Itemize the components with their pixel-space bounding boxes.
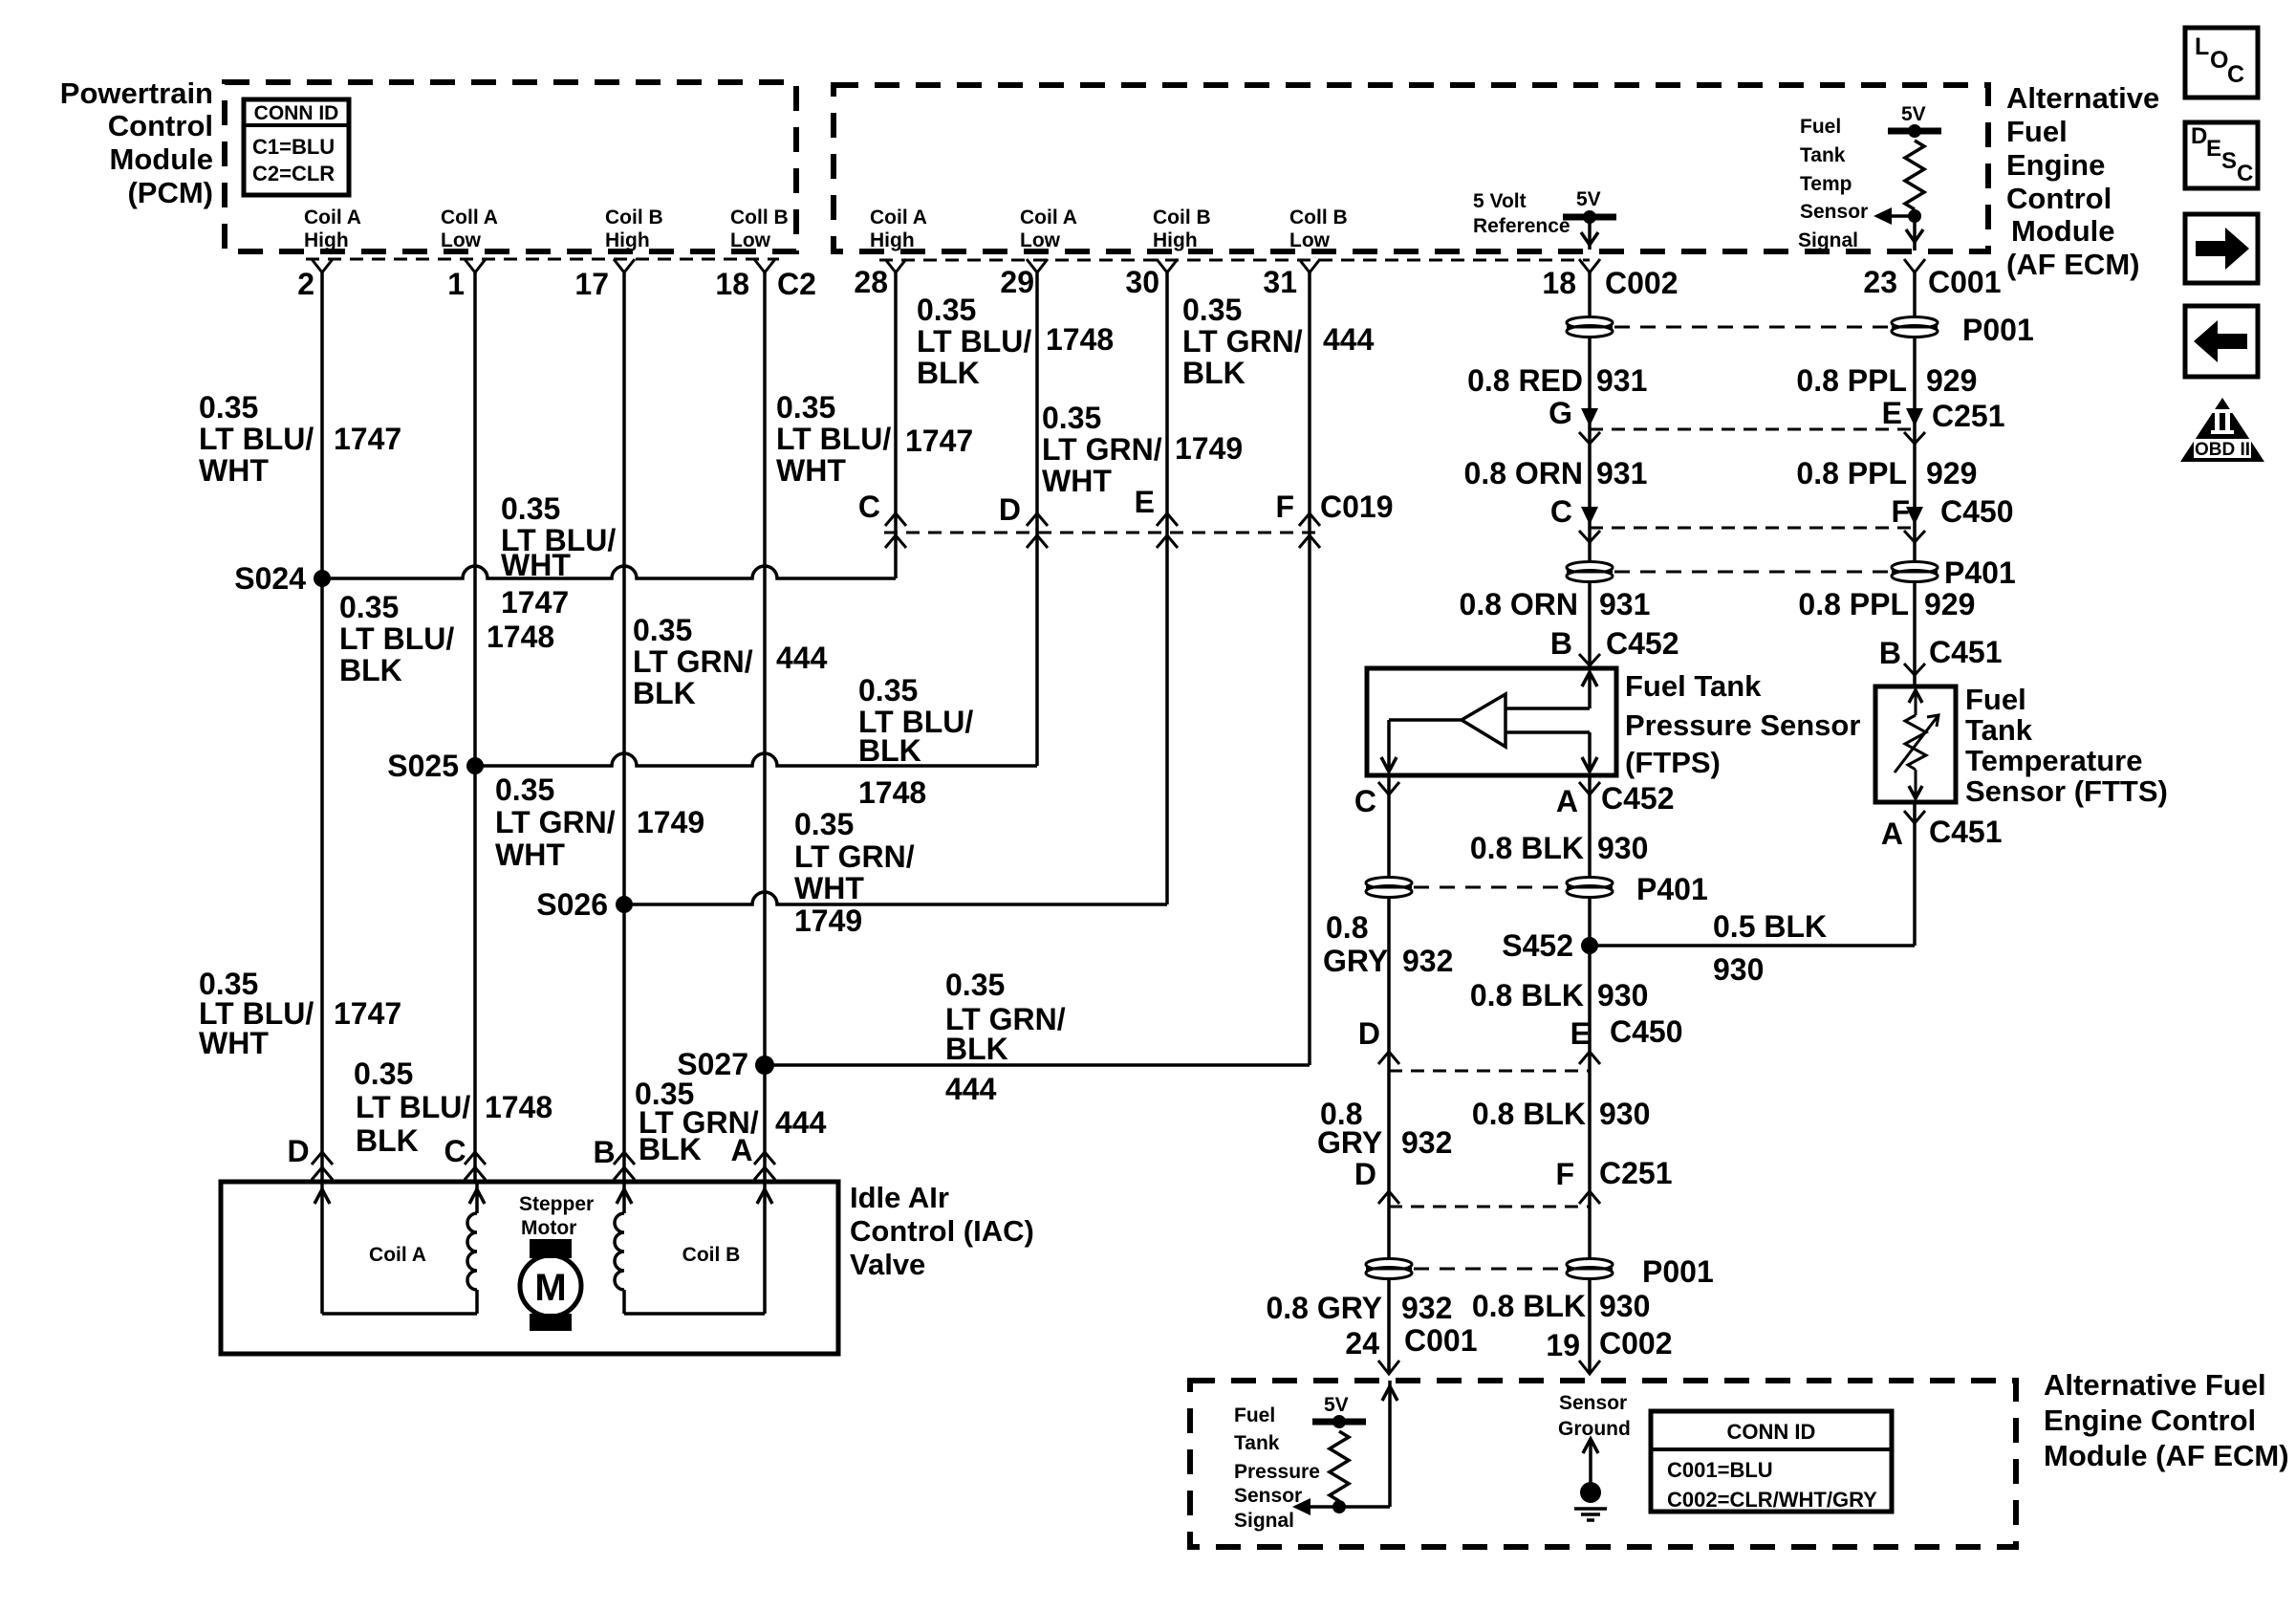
wire: PCM pin 1 Coil A Low (1748) down to IAC pin C: [473, 271, 477, 1182]
svg-text:E: E: [1882, 396, 1902, 430]
component box: Fuel Tank Temperature Sensor (FTTS): [1875, 686, 1956, 802]
svg-text:LT BLU/: LT BLU/: [199, 422, 314, 456]
svg-text:930: 930: [1713, 952, 1764, 987]
svg-text:0.35: 0.35: [199, 390, 258, 425]
svg-text:Coil B: Coil B: [1153, 207, 1211, 229]
wire label: 0.8 GRY 932 (upper): [1323, 910, 1453, 978]
svg-text:932: 932: [1401, 1125, 1452, 1160]
pin terminal: C019 pin C upper chevron: [885, 513, 906, 526]
svg-text:Coil B: Coil B: [682, 1244, 741, 1266]
wire: FTTS pin A down and over to splice S452: [1913, 802, 1917, 946]
svg-text:D: D: [1358, 1016, 1380, 1051]
pin terminal: C019 pin C lower chevron: [885, 535, 906, 548]
wire label: 0.8 PPL 929 (upper): [1796, 363, 1977, 398]
svg-text:444: 444: [1323, 322, 1375, 357]
grommet: P001 left (932 circuit): [1366, 1259, 1412, 1271]
pin label: PCM Coil B High: [605, 207, 663, 251]
svg-text:High: High: [870, 229, 915, 251]
wire label: 0.35 LT BLU/WHT 1747 (pin 2 lower): [199, 967, 401, 1060]
pin terminal: C251 pin G arrow: [1581, 408, 1598, 426]
svg-text:WHT: WHT: [776, 453, 846, 488]
wire: FTPS amplifier output to pin A: [1505, 732, 1597, 772]
svg-text:0.8 BLK: 0.8 BLK: [1470, 978, 1584, 1012]
pin terminal: AF ECM pin 19 C002: [1579, 1361, 1600, 1374]
connector: C450 (C/F) dashed line: [1590, 527, 1915, 530]
pin terminal: AF ECM pin 24 C001: [1378, 1361, 1399, 1374]
pin label: 23 C001: [1863, 265, 2001, 299]
svg-text:0.8 PPL: 0.8 PPL: [1796, 363, 1907, 398]
svg-text:Alternative: Alternative: [2006, 81, 2159, 115]
svg-text:Module (AF ECM): Module (AF ECM): [2044, 1439, 2289, 1472]
wire label: 0.8 BLK 930 (middle): [1472, 1097, 1651, 1131]
svg-text:Sensor: Sensor: [1234, 1485, 1302, 1507]
svg-text:Powertrain: Powertrain: [60, 76, 213, 110]
power symbol: 5V rail for fuel tank temp sensor pull-up: [1888, 103, 1941, 138]
svg-text:High: High: [1153, 229, 1198, 251]
svg-text:18: 18: [715, 267, 749, 301]
pin terminal: AF ECM pin 28: [885, 259, 906, 272]
svg-text:C251: C251: [1599, 1156, 1673, 1190]
wire label: 0.8 GRY 932 (bottom): [1266, 1291, 1452, 1325]
label: Fuel Tank Pressure Sensor Signal: [1234, 1404, 1320, 1532]
grommet: P001 right (930 circuit): [1567, 1259, 1613, 1271]
wire: FTPS pin C column down to pin 24 C001: [1387, 775, 1391, 1374]
svg-text:1747: 1747: [501, 585, 569, 620]
svg-text:F: F: [1275, 490, 1294, 524]
svg-text:S: S: [2221, 148, 2237, 174]
svg-text:LT BLU/: LT BLU/: [776, 422, 891, 456]
svg-text:0.35: 0.35: [776, 390, 835, 425]
motor M1: stepper motor symbol: [519, 1193, 594, 1331]
svg-text:444: 444: [775, 1105, 827, 1140]
svg-text:P001: P001: [1642, 1254, 1714, 1289]
svg-text:0.35: 0.35: [917, 293, 976, 327]
svg-text:WHT: WHT: [501, 548, 571, 582]
svg-text:P401: P401: [1636, 872, 1708, 906]
svg-text:GRY: GRY: [1317, 1125, 1382, 1160]
svg-text:Coil A: Coil A: [369, 1244, 426, 1266]
svg-text:Pressure Sensor: Pressure Sensor: [1625, 708, 1860, 742]
svg-text:929: 929: [1926, 456, 1977, 490]
label: Fuel Tank Temperature Sensor (FTTS): [1965, 683, 2168, 808]
svg-text:C002=CLR/WHT/GRY: C002=CLR/WHT/GRY: [1667, 1488, 1877, 1512]
wire label: 0.35 LT BLU/BLK 1748 (pin 1 lower): [354, 1056, 552, 1158]
svg-text:BLK: BLK: [945, 1032, 1008, 1066]
splice S026: [616, 896, 633, 913]
svg-text:Engine: Engine: [2006, 148, 2105, 182]
wire label: 0.8 BLK 930 (below S452): [1470, 978, 1649, 1012]
svg-text:Signal: Signal: [1798, 229, 1858, 251]
svg-text:L: L: [2195, 33, 2209, 60]
svg-text:C: C: [1354, 784, 1376, 818]
svg-text:F: F: [1891, 494, 1910, 529]
svg-text:C452: C452: [1601, 781, 1675, 816]
svg-text:A: A: [730, 1133, 752, 1167]
wire: FTT signal stub with left arrow: [1874, 207, 1915, 225]
thermistor: FTTS variable resistor symbol: [1895, 690, 1939, 798]
svg-text:29: 29: [1000, 265, 1034, 299]
wire: FTPS amplifier tip to pin C: [1381, 720, 1462, 772]
pin terminal: C019 pin D lower chevron: [1027, 535, 1048, 548]
svg-text:1747: 1747: [334, 422, 401, 456]
grommet: P401 right (930 circuit): [1567, 878, 1613, 889]
wire label: 0.8 BLK 930 (bottom): [1472, 1289, 1651, 1323]
svg-text:Temp: Temp: [1800, 173, 1852, 195]
svg-text:Control: Control: [108, 109, 213, 142]
svg-text:GRY: GRY: [1323, 944, 1388, 978]
pin label: 19 C002: [1546, 1326, 1672, 1362]
svg-text:0.35: 0.35: [354, 1056, 413, 1091]
svg-text:F: F: [1555, 1157, 1574, 1191]
svg-text:C1=BLU: C1=BLU: [252, 135, 335, 159]
grommet P001 dashed link: [1614, 326, 1890, 329]
svg-text:G: G: [1549, 396, 1572, 430]
pin terminal: C019 pin F lower chevron: [1299, 535, 1320, 548]
svg-text:0.8 BLK: 0.8 BLK: [1472, 1097, 1586, 1131]
svg-text:0.8 GRY: 0.8 GRY: [1266, 1291, 1382, 1325]
svg-text:Sensor: Sensor: [1800, 201, 1868, 223]
pin terminal: FTTS pin B chevron: [1904, 664, 1925, 675]
pin terminal: C251 pin E arrow: [1906, 408, 1923, 426]
wire label: 0.35 LT GRN/BLK 444 (S027 branch): [945, 968, 1066, 1106]
svg-text:Fuel Tank: Fuel Tank: [1625, 669, 1762, 703]
wire label: 0.5 BLK 930 (S452 to FTTS): [1713, 909, 1827, 987]
pin label: AF ECM Coll B Low: [1289, 207, 1348, 251]
pin terminal: C450 pin D chevron: [1378, 1052, 1399, 1064]
svg-text:Fuel: Fuel: [1234, 1404, 1275, 1426]
svg-text:BLK: BLK: [1182, 356, 1245, 390]
pin terminal: C450 pin F arrow: [1906, 507, 1923, 525]
component box: Idle Air Control (IAC) Valve: [221, 1182, 838, 1354]
svg-text:Reference: Reference: [1473, 215, 1570, 237]
wire label: 0.8 PPL 929 (middle): [1796, 456, 1977, 490]
wire label: 0.35 LT BLU/BLK 1748 (pin 1 upper): [339, 590, 554, 687]
svg-text:Signal: Signal: [1234, 1510, 1294, 1532]
module box: Powertrain Control Module (PCM) dashed outline: [225, 82, 796, 251]
junction: FTP resistor bottom node: [1332, 1500, 1346, 1513]
pin label: AF ECM Coil A High: [870, 207, 927, 251]
coil L2: Coil B winding loop: [615, 1182, 772, 1314]
table: AF ECM CONN ID box: [1651, 1411, 1892, 1512]
svg-text:C: C: [2237, 161, 2253, 186]
svg-text:930: 930: [1597, 978, 1648, 1012]
wire label: 0.8 GRY 932 (middle): [1317, 1097, 1452, 1160]
splice S024: [314, 570, 331, 587]
svg-text:WHT: WHT: [495, 838, 565, 872]
grommet: P001 right (23 C001 column): [1892, 317, 1938, 329]
svg-text:Low: Low: [1020, 229, 1061, 251]
svg-text:C: C: [2227, 61, 2244, 88]
pin terminal: FTPS pin B chevron: [1579, 654, 1600, 665]
pin terminal: C251 pin D chevron: [1378, 1191, 1399, 1204]
icon: forward arrow box: [2185, 214, 2258, 283]
svg-text:Coll B: Coll B: [1289, 207, 1348, 229]
svg-text:B: B: [593, 1135, 615, 1169]
svg-text:Coil A: Coil A: [1020, 207, 1077, 229]
svg-text:D: D: [999, 492, 1021, 527]
wire: splice S026 line to C019 pin E (1749): [624, 892, 1167, 904]
label: Fuel Tank Temp Sensor Signal: [1798, 116, 1868, 251]
wire label: 0.35 LT BLU/BLK 1748 (pin 29): [917, 293, 1114, 390]
pin terminal: C019 pin D upper chevron: [1027, 513, 1048, 526]
pin label: AF ECM Coil A Low: [1020, 207, 1077, 251]
svg-text:0.35: 0.35: [633, 613, 692, 647]
svg-text:WHT: WHT: [794, 871, 864, 905]
svg-text:929: 929: [1924, 587, 1975, 621]
svg-text:C: C: [1550, 494, 1572, 529]
wire label: 0.35 LT BLU/WHT 1747 (pin 28): [776, 390, 973, 488]
svg-text:0.35: 0.35: [1182, 293, 1242, 327]
pin terminal: C019 pin E upper chevron: [1157, 513, 1178, 526]
wire: splice S452 line to FTTS ground (0.5 BLK 930): [1590, 944, 1915, 947]
svg-text:Tank: Tank: [1234, 1432, 1280, 1454]
svg-text:Pressure: Pressure: [1234, 1461, 1320, 1483]
svg-text:C019: C019: [1320, 490, 1394, 524]
component box: Fuel Tank Pressure Sensor (FTPS): [1367, 668, 1616, 775]
svg-text:BLK: BLK: [356, 1123, 419, 1158]
pin label: 24 C001: [1345, 1323, 1477, 1361]
grommet: P401 right (929 circuit): [1892, 562, 1938, 574]
power symbol: 5V rail for fuel tank pressure sensor pull-up: [1312, 1394, 1366, 1428]
pin terminal: AF ECM pin 18 C002: [1579, 259, 1600, 272]
svg-text:P401: P401: [1944, 555, 2016, 590]
pin terminal: C450 pin C chevron: [1579, 531, 1600, 542]
pin terminal: PCM pin 18: [754, 259, 775, 272]
svg-text:BLK: BLK: [858, 733, 921, 768]
svg-text:Fuel: Fuel: [2006, 115, 2068, 148]
coil L1: Coil A winding loop: [314, 1182, 485, 1314]
grommet P401 dashed link (top): [1614, 571, 1890, 574]
splice S452: [1581, 937, 1598, 954]
svg-text:B: B: [1879, 636, 1901, 670]
svg-text:D: D: [2191, 123, 2207, 149]
pin terminal: PCM pin 1: [465, 259, 486, 272]
svg-text:CONN ID: CONN ID: [254, 102, 339, 124]
svg-text:0.8 ORN: 0.8 ORN: [1464, 456, 1583, 490]
pin terminal: AF ECM pin 23 C001: [1904, 259, 1925, 272]
wire: PCM pin 17 Coil B High (1749) down to IAC pin B: [622, 271, 626, 1182]
pin label: 18 C002: [1542, 266, 1678, 300]
wire: AF pin 28 down to C019 pin C and splice S024 branch: [894, 271, 898, 578]
svg-text:C450: C450: [1610, 1014, 1683, 1049]
label: 5 Volt Reference: [1473, 190, 1570, 237]
svg-text:Fuel: Fuel: [1965, 683, 2026, 716]
wire label: 0.35 LT BLU/WHT 1747 (S024 branch): [501, 491, 616, 620]
svg-text:5 Volt: 5 Volt: [1473, 190, 1527, 212]
grommet: P001 left (18 C002 column): [1567, 317, 1613, 329]
svg-text:19: 19: [1546, 1328, 1580, 1362]
pin terminal: IAC pin B chevrons: [614, 1152, 635, 1180]
label: Sensor Ground: [1558, 1392, 1631, 1440]
svg-text:0.5 BLK: 0.5 BLK: [1713, 909, 1827, 944]
svg-text:A: A: [1881, 816, 1903, 851]
svg-text:Motor: Motor: [521, 1217, 576, 1239]
grommet P401 dashed link (middle): [1414, 886, 1565, 889]
pin label: AF ECM Coil B High: [1153, 207, 1211, 251]
pin terminal: AF ECM pin 29: [1027, 259, 1048, 272]
svg-text:C2: C2: [777, 267, 816, 301]
svg-text:17: 17: [574, 267, 609, 301]
svg-text:(AF ECM): (AF ECM): [2006, 248, 2139, 281]
svg-text:(FTPS): (FTPS): [1625, 746, 1721, 779]
svg-text:LT GRN/: LT GRN/: [1042, 432, 1162, 467]
connector row: PCM C2 dashed line: [306, 258, 779, 261]
pin terminal: FTPS pin A chevron: [1579, 782, 1600, 795]
svg-text:OBD II: OBD II: [2195, 440, 2250, 460]
svg-text:1748: 1748: [485, 1090, 552, 1124]
svg-text:5V: 5V: [1324, 1394, 1349, 1416]
wire: FTP signal node line with left arrow: [1292, 1498, 1390, 1515]
svg-text:31: 31: [1263, 265, 1297, 299]
svg-text:High: High: [605, 229, 650, 251]
svg-text:LT GRN/: LT GRN/: [794, 839, 915, 874]
grommet: P401 left (931 circuit): [1567, 562, 1613, 574]
svg-text:Alternative Fuel: Alternative Fuel: [2044, 1368, 2266, 1402]
module box: Alternative Fuel Engine Control Module (AF ECM) top dashed outline: [834, 85, 1988, 251]
svg-text:Tank: Tank: [1800, 144, 1846, 166]
wire label: 0.35 LT BLU/WHT 1747 (pin 2 upper): [199, 390, 401, 488]
module box: Alternative Fuel Engine Control Module (AF ECM) bottom dashed outline: [1190, 1381, 2016, 1547]
svg-text:931: 931: [1596, 363, 1647, 398]
table: PCM CONN ID box: [244, 99, 349, 195]
svg-text:Control: Control: [2006, 182, 2112, 215]
svg-text:C450: C450: [1940, 494, 2014, 529]
junction: FTT resistor bottom node: [1908, 209, 1921, 223]
pin label: PCM Coll A Low: [441, 207, 498, 251]
svg-text:0.8 BLK: 0.8 BLK: [1472, 1289, 1586, 1323]
svg-text:C: C: [858, 490, 880, 524]
svg-text:(PCM): (PCM): [127, 176, 213, 209]
svg-text:Tank: Tank: [1965, 713, 2033, 747]
svg-text:WHT: WHT: [199, 453, 269, 488]
pin terminal: PCM pin 17: [614, 259, 635, 272]
pin terminal: C019 pin E lower chevron: [1157, 535, 1178, 548]
pin terminal: C450 pin C arrow: [1581, 507, 1598, 525]
svg-text:BLK: BLK: [917, 356, 980, 390]
svg-text:1747: 1747: [905, 424, 973, 458]
svg-text:Idle AIr: Idle AIr: [850, 1181, 949, 1214]
svg-text:C2=CLR: C2=CLR: [252, 162, 335, 185]
svg-text:C002: C002: [1599, 1326, 1673, 1361]
svg-text:A: A: [1556, 784, 1578, 818]
svg-text:1: 1: [447, 267, 465, 301]
icon: back arrow box: [2185, 306, 2258, 377]
label: Idle AIr Control (IAC) Valve: [850, 1181, 1034, 1281]
svg-text:S025: S025: [387, 749, 459, 783]
svg-text:1749: 1749: [637, 805, 704, 839]
wire label: 0.8 RED 931: [1467, 363, 1647, 398]
wire label: 0.35 LT BLU/BLK 1748 (S025 branch): [858, 673, 973, 810]
svg-text:Coil A: Coil A: [870, 207, 927, 229]
svg-text:28: 28: [854, 265, 888, 299]
svg-text:Module: Module: [2011, 214, 2115, 248]
wire label: 0.35 LT GRN/BLK 444 (pin 31): [1182, 293, 1375, 390]
pin terminal: IAC pin A chevrons: [754, 1152, 775, 1180]
wire label: 0.8 ORN 931 (lower): [1460, 587, 1651, 621]
svg-text:0.35: 0.35: [339, 590, 399, 624]
svg-text:Low: Low: [1289, 229, 1331, 251]
svg-text:S452: S452: [1502, 928, 1573, 963]
svg-text:E: E: [1570, 1016, 1591, 1051]
pin terminal: C251 pin G chevron: [1579, 432, 1600, 444]
wire: AF pin 31 down to C019 pin F and splice S027 branch: [1308, 271, 1311, 1065]
svg-text:C002: C002: [1605, 266, 1679, 300]
op-amp: FTPS amplifier triangle: [1462, 694, 1505, 747]
resistor: FTT sensor pull-up inside AF ECM: [1905, 141, 1924, 209]
icon: LOC box: [2185, 28, 2258, 98]
svg-text:0.8 PPL: 0.8 PPL: [1798, 587, 1909, 621]
svg-text:0.35: 0.35: [794, 807, 854, 841]
svg-text:444: 444: [776, 641, 828, 675]
svg-text:P001: P001: [1962, 313, 2034, 347]
wire label: 0.8 BLK 930 (below FTPS): [1470, 831, 1649, 865]
svg-text:1748: 1748: [858, 775, 926, 810]
connector: C251 (D/F) dashed line: [1389, 1206, 1590, 1208]
svg-text:18: 18: [1542, 266, 1576, 300]
wire: pin 24 internal wire with up arrow: [1382, 1381, 1397, 1507]
svg-text:C451: C451: [1929, 815, 2003, 849]
svg-text:0.35: 0.35: [1042, 401, 1101, 435]
svg-text:LT GRN/: LT GRN/: [495, 805, 616, 839]
svg-text:CONN ID: CONN ID: [1727, 1420, 1816, 1444]
svg-text:C451: C451: [1929, 635, 2003, 669]
svg-text:0.8 RED: 0.8 RED: [1467, 363, 1583, 398]
pin terminal: IAC pin C chevrons: [465, 1152, 486, 1180]
svg-text:0.35: 0.35: [495, 773, 554, 807]
svg-text:929: 929: [1926, 363, 1977, 398]
svg-text:S026: S026: [536, 887, 608, 922]
svg-text:LT BLU/: LT BLU/: [356, 1090, 470, 1124]
svg-text:930: 930: [1597, 831, 1648, 865]
svg-text:Coil B: Coil B: [605, 207, 663, 229]
svg-text:23: 23: [1863, 265, 1897, 299]
pin terminal: C251 pin F chevron: [1579, 1191, 1600, 1204]
connector row: AF ECM C002 dashed line: [879, 259, 1590, 262]
label: Alternative Fuel Engine Control Module (AF ECM) top right: [2006, 81, 2159, 281]
svg-text:1748: 1748: [487, 620, 554, 654]
wire: 18 C002 column lower segment down to pin 19 C002: [1588, 775, 1592, 1374]
svg-text:2: 2: [297, 267, 314, 301]
svg-text:Sensor (FTTS): Sensor (FTTS): [1965, 774, 2168, 808]
svg-text:Sensor: Sensor: [1559, 1392, 1627, 1414]
svg-text:5V: 5V: [1901, 103, 1926, 125]
svg-text:444: 444: [945, 1072, 997, 1106]
svg-text:LT GRN/: LT GRN/: [633, 644, 753, 679]
wire label: 0.35 LT GRN/BLK 444 (pin 18 lower): [635, 1077, 827, 1166]
svg-text:C001=BLU: C001=BLU: [1667, 1458, 1773, 1482]
svg-text:0.35: 0.35: [501, 491, 560, 526]
svg-text:O: O: [2210, 47, 2228, 74]
pin label: A C452: [1556, 781, 1675, 818]
splice S027: [755, 1056, 774, 1075]
svg-text:LT GRN/: LT GRN/: [1182, 324, 1303, 359]
svg-text:0.8 PPL: 0.8 PPL: [1796, 456, 1907, 490]
wire label: 0.35 LT GRN/BLK 444 (pin 18 upper): [633, 613, 828, 710]
connector: C251 (G/E) dashed line: [1590, 428, 1915, 431]
svg-text:Stepper: Stepper: [519, 1193, 594, 1215]
svg-text:24: 24: [1345, 1326, 1379, 1361]
svg-text:M: M: [534, 1267, 566, 1309]
svg-text:Coll B: Coll B: [730, 207, 789, 229]
power symbol: 5V reference rail at AF ECM pin 18: [1563, 188, 1616, 250]
svg-text:0.8 BLK: 0.8 BLK: [1470, 831, 1584, 865]
svg-text:932: 932: [1402, 944, 1453, 978]
svg-text:Coll A: Coll A: [441, 207, 498, 229]
svg-text:930: 930: [1599, 1097, 1650, 1131]
svg-text:932: 932: [1401, 1291, 1452, 1325]
svg-text:Engine Control: Engine Control: [2044, 1404, 2256, 1437]
ground: sensor ground symbol: [1574, 1439, 1607, 1520]
